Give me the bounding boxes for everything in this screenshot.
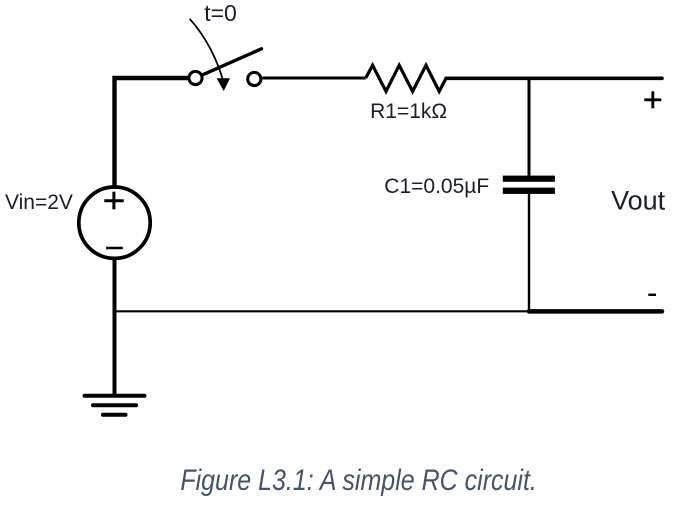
svg-text:R1=1kΩ: R1=1kΩ [370,100,447,123]
svg-text:C1=0.05µF: C1=0.05µF [384,175,489,198]
svg-text:Figure L3.1: A simple RC circu: Figure L3.1: A simple RC circuit. [180,463,537,497]
svg-text:t=0: t=0 [204,0,237,26]
svg-text:Vin=2V: Vin=2V [5,191,73,214]
svg-text:Vout: Vout [611,185,666,215]
